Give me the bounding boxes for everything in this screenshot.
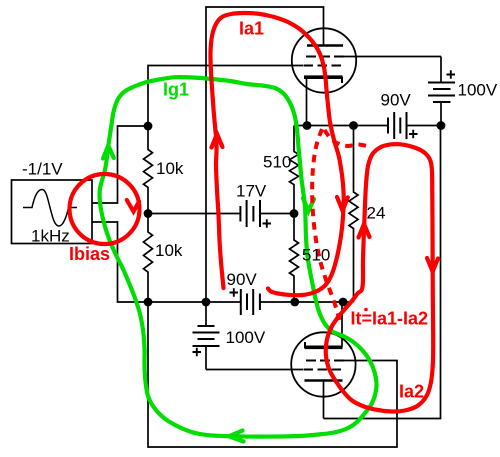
battery B1 17V	[240, 200, 260, 227]
battery B3 100V right	[440, 57, 442, 83]
wire grid bottom tube	[206, 369, 303, 371]
red dashed arc	[312, 129, 339, 320]
svg-text:17V: 17V	[236, 182, 267, 201]
tube V2 screen grid	[306, 360, 344, 362]
svg-text:It=Ia1-Ia2: It=Ia1-Ia2	[351, 309, 429, 329]
wire screen bottom to rail	[148, 302, 397, 447]
svg-text:-1/1V: -1/1V	[22, 160, 63, 179]
green arrow down at 510	[303, 198, 314, 211]
tube V1 cathode lead	[306, 78, 308, 126]
wire screen g2 top	[344, 56, 441, 58]
battery B4 90V bottom	[241, 289, 260, 315]
red arrow down Ia1	[337, 197, 348, 211]
red Ibias circle	[70, 174, 140, 244]
battery B2 90V top	[388, 112, 407, 139]
battery B5 100V bottom	[205, 302, 207, 326]
resistor R1 10k upper	[144, 126, 153, 214]
wire bottom row left	[148, 301, 241, 303]
red arrow up It	[359, 224, 370, 238]
tube V2 plate	[305, 379, 343, 381]
wire grid g1	[148, 66, 303, 127]
tube V2 envelope	[291, 332, 355, 396]
tube V2 cathode	[305, 345, 343, 349]
red loop Ia1	[210, 13, 343, 295]
tube V1 plate	[307, 44, 343, 46]
svg-text:100V: 100V	[226, 328, 266, 347]
tube V1 control grid	[304, 65, 343, 67]
svg-text:510: 510	[302, 246, 330, 265]
resistor R4 510 lower	[290, 214, 299, 303]
wire right rail	[324, 126, 441, 419]
green arrow up at source	[103, 146, 114, 159]
plus signs	[193, 70, 456, 356]
red dashed bridge	[325, 130, 368, 146]
tube V2 cathode lead	[341, 302, 343, 347]
sine wave	[23, 190, 77, 227]
resistor R5 24	[349, 126, 358, 303]
tube V2 plate lead	[323, 381, 325, 419]
red arrow up Ia1	[212, 134, 223, 148]
svg-text:10k: 10k	[156, 159, 184, 178]
tube V1 cathode	[304, 75, 343, 79]
wire top row left	[294, 125, 388, 127]
svg-text:90V: 90V	[381, 91, 412, 110]
signal source box	[12, 180, 93, 244]
tube V2 control grid	[304, 369, 343, 371]
svg-text:Ig1: Ig1	[163, 80, 189, 100]
red Ibias arrow	[127, 200, 139, 212]
wire plate top loop	[206, 7, 324, 302]
wire mid row left	[148, 213, 240, 215]
svg-text:100V: 100V	[458, 81, 498, 100]
wire mid row right	[260, 213, 294, 215]
green arrow left at bottom	[229, 431, 244, 442]
svg-text:Ia2: Ia2	[399, 382, 424, 402]
wire source upper stub	[92, 126, 148, 203]
red loop It Ia2	[326, 144, 433, 411]
svg-text:Ibias: Ibias	[69, 244, 110, 264]
resistor R2 10k lower	[144, 214, 153, 303]
tube V1 screen grid	[306, 56, 344, 58]
wire bottom row right	[260, 301, 354, 303]
svg-text:90V: 90V	[227, 270, 258, 289]
svg-text:24: 24	[367, 204, 386, 223]
wire source lower stub	[92, 222, 148, 302]
red arrow down It right	[427, 258, 438, 272]
wire top row right	[407, 125, 442, 127]
node dots	[144, 121, 446, 306]
svg-text:510: 510	[263, 153, 291, 172]
svg-text:10k: 10k	[155, 241, 183, 260]
resistor R3 510 upper	[290, 126, 299, 214]
svg-text:1kHz: 1kHz	[31, 227, 70, 246]
tube V1 envelope	[292, 28, 356, 92]
svg-text:Ia1: Ia1	[239, 19, 264, 39]
green loop Ig1	[100, 77, 377, 437]
